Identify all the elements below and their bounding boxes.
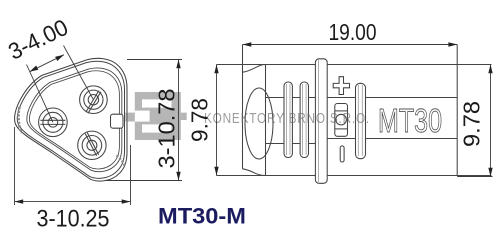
o-ring rib 1 [284,82,292,158]
side view neck lower line left [266,143,316,145]
dimension 3-10.78 bottom extension line [106,180,182,182]
svg-text:3-10.78: 3-10.78 [154,89,180,169]
latch box [335,104,348,137]
svg-text:19.00: 19.00 [329,19,377,45]
moulded rim text bottom-right [117,156,126,167]
dimension 3-10.25 left extension line [14,127,16,205]
dimension text 9.78 left [187,98,213,142]
watermark text KONEKTORY BRNO S.R.O. [204,110,370,127]
side view cap top chamfer [243,65,266,73]
dimension text 19.00 [329,19,377,45]
side view right edge / 19.00 extension [456,45,458,177]
side view left edge / 19.00 extension [242,45,244,169]
dimension text 3-10.25 [37,206,110,233]
side view top edge / extension line [217,64,492,66]
pin P3 bottom [78,131,106,159]
keying notch on right wall [111,114,124,128]
dimension 3-4.00 leader extension line to P1 [64,46,94,100]
dimension 9.78 right bottom extension [457,176,492,178]
svg-text:3-4.00: 3-4.00 [4,14,72,65]
part number label MT30-M [158,204,246,229]
left view cavity wall outer line [27,68,122,172]
dimension 3-4.00 leader extension line to P2 [27,65,53,123]
dimension 9.78 left line with arrows [214,65,218,176]
dimension 3-4.00 line with arrows [30,55,65,72]
watermark logo block [125,92,186,140]
svg-text:MT30-M: MT30-M [158,204,246,229]
flange [315,59,327,184]
minus slot mark [340,146,344,162]
side view bottom edge / extension line [217,175,492,177]
rib 3 right of latch [356,83,366,158]
side view cap/body boundary [265,65,267,176]
dimension 9.78 right line with arrows [488,65,492,177]
moulded rim text left [19,107,22,133]
dimension text 3-10.78 [154,89,180,169]
svg-text:9.78: 9.78 [187,98,213,142]
pin P2 left [39,108,68,137]
dimension text 3-4.00 [4,14,72,65]
side view cap ellipse [245,88,273,159]
dimension 3-10.78 line with arrows [176,60,180,181]
svg-text:MT30: MT30 [378,102,442,139]
svg-text:KONEKTORY BRNO S.R.O.: KONEKTORY BRNO S.R.O. [204,110,370,127]
dimension 3-10.25 line with arrows [14,199,130,203]
pin P1 top [80,86,108,114]
plus polarity mark [333,77,349,95]
left view outer contour [15,58,127,181]
dimension 19.00 line with arrows [243,42,458,46]
side view neck upper line [266,97,458,99]
MT30 moulded label [378,102,442,139]
side view cap bottom chamfer [243,169,266,176]
watermark logo S channel [135,99,172,132]
svg-text:9.78: 9.78 [459,101,485,147]
dimension 3-10.78 top extension line [127,59,182,61]
svg-text:3-10.25: 3-10.25 [37,206,110,233]
left view outer contour inner line [17,61,124,178]
o-ring rib 2 [300,82,308,158]
left view cavity wall inner line [29,71,119,169]
dimension 3-10.25 right extension line [130,145,132,205]
side view label band lower line right [327,138,457,140]
dimension text 9.78 right [459,101,485,147]
